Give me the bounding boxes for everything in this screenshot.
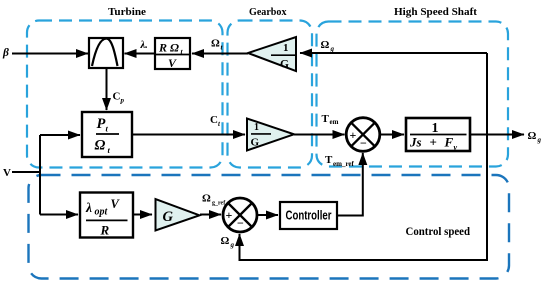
wire S2 to Controller [257, 214, 278, 216]
wire Tem (1/G to summing junction S1) [294, 134, 345, 136]
svg-text:G: G [251, 137, 260, 149]
svg-text:Ω: Ω [221, 235, 230, 247]
svg-text:+: + [226, 208, 233, 222]
svg-text:1: 1 [283, 42, 289, 54]
svg-text:1: 1 [254, 122, 259, 133]
gain G (pointing right) [156, 199, 200, 231]
wire lambda_opt block to gain G [132, 214, 152, 216]
svg-text:T: T [322, 113, 330, 125]
svg-text:V: V [3, 167, 11, 179]
wire into lambda_opt block [40, 214, 78, 216]
block Pt/Omega_t [82, 112, 132, 157]
svg-text:λ.: λ. [140, 40, 148, 51]
svg-text:β: β [2, 47, 9, 59]
svg-text:F: F [444, 135, 454, 150]
svg-text:Gearbox: Gearbox [249, 6, 287, 18]
feedback wire right vertical [486, 53, 488, 260]
wire Omega_t (gearbox 1/G to R Omega_t/V block) [192, 53, 248, 55]
gearbox gain 1/G (top, pointing left) [248, 37, 296, 71]
wire S1 to 1/(Js+Fv) block [380, 134, 405, 136]
svg-text:λ: λ [85, 200, 92, 215]
wire V input [12, 171, 41, 173]
summing junction S2 [223, 198, 257, 232]
svg-text:C: C [113, 91, 121, 103]
svg-text:−: − [360, 136, 367, 150]
svg-text:Ω: Ω [202, 193, 211, 205]
dashed region: High Speed Shaft [317, 22, 509, 167]
dashed region: Turbine [27, 21, 223, 168]
svg-text:t: t [218, 120, 221, 128]
svg-text:Control speed: Control speed [406, 226, 471, 238]
wire lambda (R Omega_t/V block to curve block) [125, 53, 156, 55]
svg-text:R: R [100, 223, 110, 238]
wire output Omega_g [470, 134, 524, 136]
svg-text:g: g [230, 241, 235, 249]
svg-text:P: P [97, 116, 106, 132]
wire beta into Cp curve block [12, 53, 88, 55]
block Cp curve (lookup) [89, 38, 123, 68]
block R Omega_t / V [155, 38, 190, 70]
svg-text:g_ref: g_ref [212, 201, 226, 207]
svg-text:opt: opt [95, 207, 109, 218]
svg-text:Ω: Ω [95, 138, 106, 154]
svg-text:−: − [237, 216, 244, 230]
vertical wire from V junction [39, 135, 41, 215]
wire Omega_g feedback (top, right vertical to gearbox) [300, 52, 487, 54]
svg-text:Ω: Ω [528, 130, 537, 142]
svg-text:g: g [330, 45, 335, 53]
block Controller [280, 202, 337, 229]
svg-text:V: V [168, 56, 177, 70]
svg-text:G: G [280, 59, 289, 71]
svg-text:Js: Js [409, 135, 422, 150]
wire into Pt block [40, 134, 80, 136]
svg-text:R Ω: R Ω [158, 41, 179, 55]
svg-text:T: T [325, 154, 333, 166]
svg-text:C: C [210, 114, 218, 126]
wire Tem_ref (Controller up to S1) [337, 153, 363, 216]
block 1/(Js+Fv) [406, 118, 470, 152]
svg-text:Controller: Controller [286, 209, 332, 223]
dashed region: Control speed [29, 175, 510, 279]
svg-text:High Speed Shaft: High Speed Shaft [394, 6, 477, 18]
svg-text:v: v [454, 143, 458, 152]
svg-text:G: G [163, 209, 174, 225]
gearbox gain 1/G (bottom, pointing right) [247, 119, 294, 151]
svg-text:+: + [350, 128, 357, 142]
summing junction S1 [346, 118, 380, 152]
svg-text:p: p [120, 97, 125, 105]
svg-text:em_ref: em_ref [333, 160, 355, 168]
wire Ct (Pt block to gearbox 1/G bottom) [132, 134, 245, 136]
block lambda_opt V / R [80, 193, 133, 238]
svg-text:em: em [330, 118, 339, 126]
wire Omega_g_ref (G to summing junction S2) [200, 214, 221, 216]
svg-text:Ω: Ω [321, 39, 330, 51]
svg-text:Ω: Ω [211, 38, 220, 50]
dashed region: Gearbox [228, 21, 313, 168]
wire Omega_g up into summing junction S2 [239, 234, 241, 261]
svg-text:g: g [537, 136, 542, 144]
wire Cp (curve block down to Pt block) [106, 68, 108, 110]
feedback wire bottom horizontal [240, 259, 489, 261]
svg-text:+: + [430, 135, 437, 150]
svg-text:Turbine: Turbine [108, 6, 146, 18]
